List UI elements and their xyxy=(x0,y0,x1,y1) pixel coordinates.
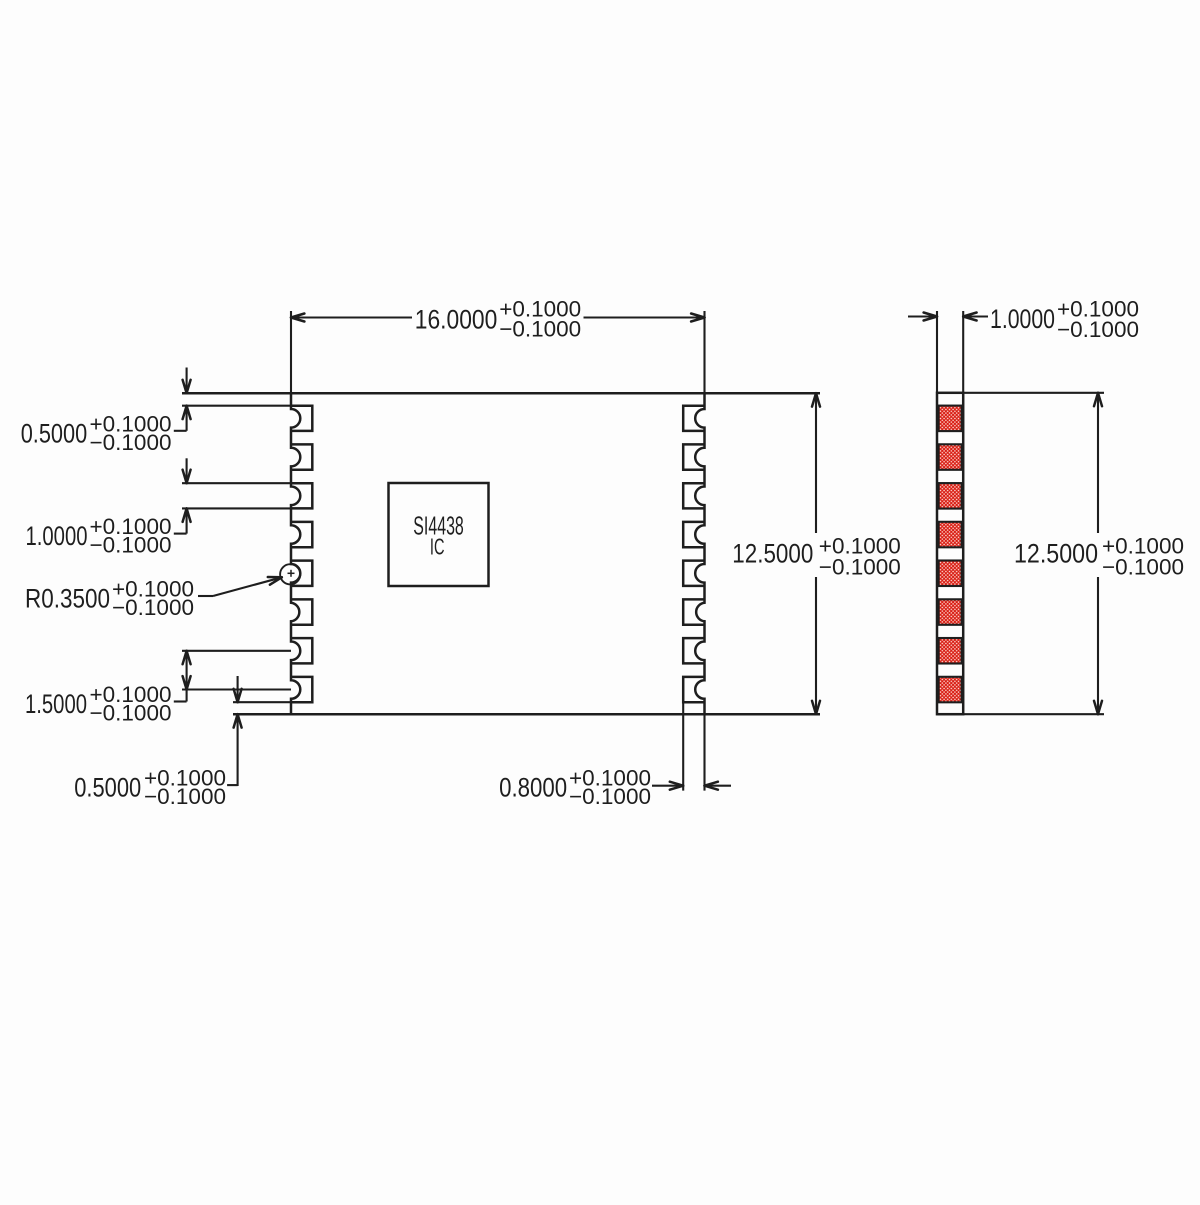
svg-text:−0.1000: −0.1000 xyxy=(112,595,194,620)
svg-text:12.5000: 12.5000 xyxy=(732,539,813,569)
svg-text:1.5000: 1.5000 xyxy=(25,689,87,719)
svg-text:−0.1000: −0.1000 xyxy=(569,784,651,809)
svg-text:12.5000: 12.5000 xyxy=(1014,539,1098,569)
svg-text:−0.1000: −0.1000 xyxy=(1102,555,1184,580)
svg-text:−0.1000: −0.1000 xyxy=(90,430,172,455)
svg-text:0.8000: 0.8000 xyxy=(499,773,567,803)
svg-text:−0.1000: −0.1000 xyxy=(90,533,172,558)
svg-text:−0.1000: −0.1000 xyxy=(819,555,901,580)
svg-text:−0.1000: −0.1000 xyxy=(499,316,581,341)
svg-text:1.0000: 1.0000 xyxy=(990,304,1055,334)
svg-text:R0.3500: R0.3500 xyxy=(25,584,110,614)
svg-text:−0.1000: −0.1000 xyxy=(1057,317,1139,342)
svg-text:16.0000: 16.0000 xyxy=(415,305,498,335)
svg-text:−0.1000: −0.1000 xyxy=(90,701,172,726)
svg-text:−0.1000: −0.1000 xyxy=(144,784,226,809)
svg-text:IC: IC xyxy=(430,533,445,559)
svg-text:1.0000: 1.0000 xyxy=(26,521,88,551)
svg-text:0.5000: 0.5000 xyxy=(21,419,88,449)
svg-text:0.5000: 0.5000 xyxy=(74,773,141,803)
